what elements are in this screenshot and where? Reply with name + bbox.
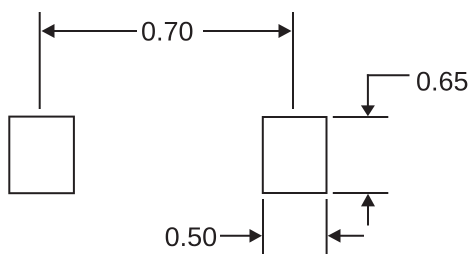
svg-text:0.50: 0.50 [165,222,218,252]
arrowhead 0.50 left [328,229,341,243]
arrowhead 0.65 down [361,105,375,116]
svg-text:0.70: 0.70 [141,17,194,47]
dimension line 0.70 left segment [53,30,137,32]
extension line pad1 centerline [39,12,41,109]
stem of 0.65 up arrow [367,206,369,226]
dimension line 0.70 right segment [203,30,280,32]
arrowhead 0.50 right [250,229,263,243]
arrowhead 0.70 left [42,24,55,38]
extension line pad2 centerline [292,12,294,109]
leader line 0.65 vertical stem [367,74,369,106]
dimension line 0.50 left segment [220,235,251,237]
reference line pad2 top edge [333,116,389,118]
reference line pad2 bottom edge [333,192,389,194]
arrowhead 0.65 up [361,194,375,207]
svg-text:0.65: 0.65 [416,66,469,96]
arrowhead 0.70 right [279,24,292,38]
pad P2 (right square) [263,117,327,193]
pad P1 (left square) [9,117,74,194]
dimension line 0.50 right tail [340,235,364,237]
leader line 0.65 horizontal [367,74,410,76]
extension line pad2 left edge [262,199,264,254]
extension line pad2 right edge [326,199,328,254]
